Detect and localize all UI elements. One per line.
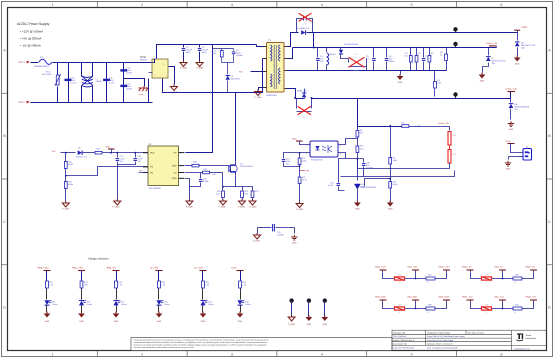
resistor R23 sense — [243, 187, 253, 191]
svg-text:Bridge: Bridge — [140, 56, 147, 59]
svg-text:2: 2 — [141, 3, 143, 7]
inductor L1 common-mode choke — [81, 63, 83, 77]
LED D13 — [200, 301, 205, 306]
power ground P_GND — [171, 87, 178, 91]
svg-text:ACL1: ACL1 — [19, 61, 26, 64]
resistor divider R16 — [64, 182, 67, 189]
capacitor C9 — [373, 48, 375, 58]
svg-text:P_GND: P_GND — [180, 67, 187, 70]
svg-text:1.0k: 1.0k — [242, 284, 246, 287]
svg-text:P_GND: P_GND — [62, 208, 69, 211]
resistor R10 — [357, 146, 359, 147]
wire T1 sec pin8 — [285, 70, 288, 72]
power port Reg_-12V — [499, 299, 506, 301]
svg-text:4: 4 — [321, 3, 323, 7]
capacitor C24 — [200, 173, 202, 179]
svg-text:100k: 100k — [302, 160, 306, 163]
logo Texas Instruments — [516, 333, 523, 341]
wire opto pin3 — [339, 153, 346, 159]
resistor R37 DNP 0-ohm — [395, 307, 405, 310]
LED D10 — [79, 301, 84, 306]
capacitor C22 Y-cap — [258, 227, 272, 229]
wire — [471, 271, 534, 279]
svg-text:0.1uF: 0.1uF — [328, 184, 334, 187]
capacitor C6 — [386, 48, 388, 58]
svg-text:5: 5 — [411, 3, 413, 7]
svg-text:R36: R36 — [515, 274, 518, 277]
power ground P_GND — [254, 235, 261, 239]
wire opto pin2 — [284, 153, 311, 159]
svg-text:GND: GND — [515, 63, 520, 66]
power port Reg3_-5V — [530, 269, 537, 271]
svg-text:1.0k: 1.0k — [118, 284, 122, 287]
junction test point TP3 — [453, 92, 457, 96]
svg-text:Linear_-5V: Linear_-5V — [438, 122, 449, 125]
wire — [81, 289, 83, 300]
wire — [81, 271, 83, 281]
svg-text:Reg2_-12V: Reg2_-12V — [462, 296, 473, 299]
wire reference node — [365, 179, 391, 187]
svg-text:0: 0 — [399, 281, 400, 284]
diode D9 DNP — [348, 59, 350, 63]
power port Reg_GND — [412, 299, 419, 301]
diode D10 DNP — [296, 99, 298, 109]
wire — [240, 306, 242, 313]
capacitor C4 snubber — [233, 49, 235, 51]
power port Lin_-12V — [200, 270, 207, 272]
svg-text:GND: GND — [307, 323, 312, 326]
wire — [158, 306, 160, 313]
svg-text:1000pF: 1000pF — [236, 54, 244, 57]
svg-text:Voltage Indicators: Voltage Indicators — [88, 258, 109, 261]
capacitor C19 — [282, 160, 286, 162]
svg-text:Reg3_-12V: Reg3_-12V — [526, 296, 537, 299]
wire — [116, 306, 118, 313]
bridge rectifier D1 MDB8S — [152, 59, 168, 78]
mosfet Q1 — [229, 162, 237, 175]
svg-text:Reg3_GND: Reg3_GND — [439, 296, 450, 299]
wire bulk rail — [157, 45, 257, 59]
test point TP4 — [289, 298, 293, 302]
resistor R4 — [446, 48, 448, 55]
power port Reg3_+12V — [443, 269, 450, 271]
svg-text:P_GND: P_GND — [186, 206, 193, 209]
power ground P_GND — [114, 201, 121, 205]
resistor R18 gate — [192, 164, 199, 167]
resistor R14 — [95, 151, 102, 154]
svg-text:Linear_-12V: Linear_-12V — [505, 88, 517, 91]
svg-text:GND: GND — [509, 128, 514, 131]
svg-text:P_GND: P_GND — [238, 206, 245, 209]
power port Linear_+5V — [496, 47, 498, 48]
power port Linear_-12V — [508, 91, 516, 93]
power port Reg2_-5V — [467, 269, 474, 271]
wire — [116, 271, 118, 281]
resistor R3 — [429, 48, 431, 56]
power port Reg2_+12V — [380, 269, 387, 271]
resistor R8 top — [357, 129, 359, 131]
power port Reg_+12V — [412, 269, 419, 271]
svg-text:0: 0 — [486, 311, 487, 314]
wire Linear -12V rail — [312, 92, 511, 99]
svg-text:440uH: 440uH — [330, 53, 336, 56]
power port +12V — [517, 31, 519, 33]
resistor R13 load DNP highlighted — [448, 150, 451, 164]
svg-text:GND: GND — [398, 81, 403, 84]
svg-text:2k: 2k — [440, 54, 442, 57]
svg-text:Green: Green — [245, 303, 251, 306]
capacitor C11 — [106, 63, 108, 103]
wire HV riser — [187, 45, 213, 153]
power ground P_GND — [62, 203, 69, 207]
svg-text:Orderable: TBD: Orderable: TBD — [393, 331, 406, 334]
power port Reg3_GND — [443, 299, 450, 301]
wire — [158, 289, 160, 300]
svg-text:0.47uF: 0.47uF — [186, 49, 193, 52]
svg-text:VDD: VDD — [150, 152, 155, 155]
inductor L1 440uH — [326, 48, 328, 53]
power port Lin_+5V — [156, 270, 163, 272]
svg-text:5: 5 — [411, 352, 413, 356]
wire — [471, 301, 534, 309]
svg-text:GND: GND — [238, 320, 243, 323]
svg-text:2: 2 — [306, 153, 307, 156]
svg-text:49.9k: 49.9k — [68, 183, 73, 186]
power port +12V — [237, 270, 244, 272]
svg-text:1.0k: 1.0k — [84, 284, 88, 287]
svg-text:Approved: Sheet: 1 of 1 Size: Approved: Sheet: 1 of 1 Size: B — [427, 343, 453, 346]
junction — [313, 47, 315, 49]
capacitor C7 — [423, 48, 425, 58]
svg-text:Project Title: AC-DC Multi Out: Project Title: AC-DC Multi Output Power … — [427, 335, 465, 338]
svg-text:Green: Green — [52, 303, 58, 306]
wire — [294, 228, 296, 234]
wire bridge plus down — [163, 79, 263, 93]
svg-text:+12V: +12V — [231, 266, 237, 269]
svg-text:1.0k: 1.0k — [161, 284, 165, 287]
wire drain riser — [235, 93, 237, 162]
svg-text:0: 0 — [515, 281, 516, 284]
zener diode D6 MMSZ4712T1G — [517, 33, 519, 41]
wire C16 bottom run — [341, 171, 455, 177]
svg-text:R39: R39 — [485, 304, 488, 307]
resistor R5 — [434, 71, 436, 82]
LED D11 — [113, 301, 118, 306]
test point TP5 — [307, 298, 311, 302]
resistor R17 100k — [299, 153, 301, 159]
ground GND — [479, 75, 486, 79]
ground GND — [306, 317, 313, 321]
resistor R39 DNP 0-ohm — [482, 307, 492, 310]
resistor R2 — [416, 48, 418, 56]
LED D12 — [156, 300, 161, 305]
wire TL431 cathode node — [346, 158, 364, 160]
svg-text:Designed for: Public Release: Designed for: Public Release — [427, 331, 450, 334]
wire T1 pin3 Rsv — [251, 71, 263, 73]
diode D6b BAS21L — [78, 150, 82, 155]
power port Reg_-5V — [113, 270, 120, 272]
wire CS path — [185, 172, 203, 174]
zener diode D7 MMSZ4712T1G — [488, 48, 490, 56]
wire — [240, 289, 242, 300]
diode D5 SMB8-13-F — [301, 30, 305, 35]
power port VDD — [296, 140, 303, 142]
svg-text:Green: Green — [87, 303, 93, 306]
svg-text:GND: GND — [172, 177, 177, 180]
svg-text:1: 1 — [51, 352, 53, 356]
power ground P_GND — [196, 63, 203, 67]
svg-text:Texas: Texas — [526, 334, 533, 337]
svg-text:VDD: VDD — [292, 138, 297, 141]
wire — [158, 271, 160, 281]
power ground P_GND — [249, 201, 256, 205]
svg-text:• +12V @ 500mA: • +12V @ 500mA — [20, 30, 43, 34]
svg-text:P_GND: P_GND — [196, 67, 203, 70]
svg-text:GND: GND — [157, 320, 162, 323]
svg-text:P_GND: P_GND — [113, 206, 120, 209]
svg-text:0: 0 — [428, 311, 429, 314]
svg-text:1: 1 — [306, 145, 307, 148]
svg-text:1.0k: 1.0k — [49, 284, 53, 287]
svg-text:630V: 630V — [186, 51, 191, 54]
optocoupler U4 FOD817DS — [310, 141, 338, 157]
wire — [83, 152, 95, 154]
svg-text:R33: R33 — [398, 274, 401, 277]
chassis ground Earth — [124, 79, 145, 87]
resistor R33 DNP 0-ohm — [395, 277, 405, 280]
svg-text:0466005.NRHF: 0466005.NRHF — [34, 65, 50, 68]
varistor RV1 — [57, 63, 59, 75]
svg-text:MDB8S: MDB8S — [140, 59, 148, 62]
power ground P_GND — [239, 201, 246, 205]
svg-text:Assy Variant: 001: Assy Variant: 001 — [393, 343, 407, 346]
shunt regulator U3 TL431AIDBZR — [354, 185, 360, 190]
capacitor C13 — [120, 85, 127, 87]
wire feedback top rail — [358, 99, 407, 127]
svg-text:3.0k: 3.0k — [437, 82, 441, 85]
resistor R21 sense — [236, 187, 243, 191]
svg-text:Lin_-12V: Lin_-12V — [194, 266, 204, 269]
junction test point TP2 — [453, 42, 457, 46]
svg-text:3: 3 — [340, 153, 341, 156]
svg-text:Lin_+5V: Lin_+5V — [150, 266, 159, 269]
connector J2 — [523, 149, 532, 161]
ground GND — [354, 203, 361, 207]
ground GND mid rail — [400, 71, 402, 75]
power port Reg_-12V — [78, 270, 85, 272]
resistor R32 — [239, 281, 242, 288]
ground GND earth — [505, 161, 511, 166]
svg-text:TID #: PMP4435: TID #: PMP4435 — [393, 335, 406, 338]
diode D8 BAV21WS — [227, 63, 229, 75]
svg-text:• +5V @ 200mA: • +5V @ 200mA — [20, 37, 42, 41]
capacitor C10 — [68, 63, 70, 103]
wire J2 pin2 — [509, 156, 523, 158]
wire — [202, 306, 204, 313]
svg-text:P_GND: P_GND — [253, 240, 260, 243]
svg-text:47nF: 47nF — [286, 160, 291, 163]
svg-text:GND: GND — [45, 320, 50, 323]
svg-text:744821: 744821 — [96, 80, 104, 83]
wire secondary mid rail — [293, 70, 447, 72]
svg-text:P_GND: P_GND — [296, 208, 303, 211]
disclaimer note box — [131, 338, 392, 351]
svg-text:0: 0 — [515, 311, 516, 314]
svg-text:R40: R40 — [515, 304, 518, 307]
resistor R7 snubber — [221, 49, 223, 51]
svg-text:680uF: 680uF — [389, 60, 395, 63]
svg-text:P_GND: P_GND — [219, 206, 226, 209]
svg-text:GND: GND — [114, 320, 119, 323]
wire — [46, 306, 48, 313]
svg-text:2: 2 — [141, 352, 143, 356]
svg-text:1.0k: 1.0k — [205, 284, 209, 287]
power port Reg_-5V — [499, 269, 506, 271]
wire — [31, 102, 153, 104]
capacitor C2 — [199, 45, 201, 48]
resistor R36 0-ohm — [513, 277, 522, 280]
wire Linear +5V rail — [293, 47, 497, 49]
svg-text:Reg_-5V: Reg_-5V — [107, 266, 117, 269]
svg-text:Drawn By: PMP DESIGNS: Drawn By: PMP DESIGNS — [393, 347, 415, 350]
resistor R30 — [158, 281, 161, 288]
ground GND earth — [508, 121, 514, 126]
svg-text:D2 MMSD4148: D2 MMSD4148 — [344, 43, 359, 46]
transformer T1 750811602 — [267, 43, 285, 93]
wire — [81, 306, 83, 313]
ground GND — [44, 314, 51, 318]
resistor R40 0-ohm — [513, 307, 522, 310]
svg-text:Mod. Date: 5/2/2016: Mod. Date: 5/2/2016 — [468, 331, 484, 334]
svg-text:SMB8-13-F: SMB8-13-F — [297, 90, 308, 93]
LED D14 — [237, 300, 242, 305]
LED D9 — [44, 300, 49, 305]
svg-text:GND: GND — [323, 323, 328, 326]
svg-text:R35: R35 — [485, 274, 488, 277]
junction — [299, 152, 301, 154]
svg-text:IPA50R2K0CE: IPA50R2K0CE — [240, 165, 254, 168]
svg-text:0: 0 — [428, 281, 429, 284]
svg-text:1: 1 — [520, 151, 521, 154]
svg-text:R38: R38 — [428, 304, 431, 307]
wire DRV to gate — [185, 165, 193, 167]
resistor R35 DNP 0-ohm — [482, 277, 492, 280]
svg-text:Green: Green — [164, 303, 170, 306]
svg-text:BAV21WS: BAV21WS — [231, 78, 241, 81]
svg-text:Reg_GND: Reg_GND — [408, 296, 418, 299]
wire — [148, 79, 150, 103]
resistor R28 — [80, 281, 83, 288]
svg-text:2.2uF: 2.2uF — [138, 158, 144, 161]
wire — [46, 271, 48, 281]
power port Reg2_-12V — [467, 299, 474, 301]
svg-text:AC/DC Power Supply: AC/DC Power Supply — [17, 22, 50, 26]
ground GND — [78, 314, 85, 318]
svg-text:Reg_-5V: Reg_-5V — [495, 266, 504, 269]
controller U1 UCC28630D — [148, 146, 179, 186]
ground GND — [200, 314, 207, 318]
resistor R1 — [410, 48, 412, 56]
wire — [202, 289, 204, 300]
svg-text:FOD817DS: FOD817DS — [311, 159, 323, 162]
svg-text:Green: Green — [121, 303, 127, 306]
svg-text:1 Specifications Dot: 1 Specifications Dot — [514, 347, 530, 350]
ground GND — [321, 317, 328, 321]
resistor divider R15 — [65, 153, 67, 162]
wire J2 pin1 — [511, 144, 523, 153]
svg-text:• -5V @ 500mA: • -5V @ 500mA — [20, 44, 41, 48]
svg-text:1.2kV: 1.2kV — [126, 85, 132, 88]
wire — [116, 289, 118, 300]
diode D3 SMB8-13-F — [296, 98, 305, 100]
svg-text:MMSZ4712T1G: MMSZ4712T1G — [521, 44, 536, 47]
svg-text:90.9k: 90.9k — [393, 183, 398, 186]
svg-text:4: 4 — [340, 145, 341, 148]
svg-text:+12V: +12V — [505, 140, 511, 143]
ground GND — [387, 203, 394, 207]
ground GND — [113, 314, 120, 318]
svg-text:640V: 640V — [236, 52, 241, 55]
wire VS sense — [66, 167, 148, 176]
title block — [392, 330, 547, 350]
svg-text:Green: Green — [208, 303, 214, 306]
svg-text:UCC28630D: UCC28630D — [149, 187, 162, 190]
wire T1 sec pin9 down — [285, 88, 288, 90]
svg-text:R34: R34 — [428, 274, 431, 277]
svg-text:VDD: VDD — [106, 146, 111, 149]
svg-text:6: 6 — [500, 3, 502, 7]
wire — [46, 289, 48, 300]
power ground P_GND — [220, 201, 227, 205]
power ground P_GND — [296, 204, 303, 208]
wire +12V rail — [307, 32, 518, 34]
svg-text:R37: R37 — [398, 304, 401, 307]
wire load bottom return — [358, 163, 450, 169]
power port Reg2_GND — [380, 299, 387, 301]
svg-text:470pF: 470pF — [126, 88, 132, 91]
svg-text:0.47uF: 0.47uF — [202, 49, 209, 52]
svg-text:GND: GND — [506, 168, 511, 171]
capacitor C3 — [183, 45, 185, 48]
svg-text:Sheet Title: AC-DC Power Stage: Sheet Title: AC-DC Power Stage — [427, 339, 453, 342]
resistor R22 51k — [298, 177, 301, 184]
power port VDD — [108, 148, 115, 150]
wire — [202, 271, 204, 281]
power ground P_GND — [288, 317, 295, 321]
svg-text:1.2kV: 1.2kV — [126, 69, 132, 72]
svg-text:HV: HV — [173, 152, 177, 155]
diode D2 MMSD4148 — [337, 47, 341, 49]
svg-text:1: 1 — [51, 3, 53, 7]
svg-text:Linear_+5V: Linear_+5V — [486, 42, 498, 45]
resistor R12 load DNP highlighted — [448, 132, 451, 146]
svg-text:Reg3_+12V: Reg3_+12V — [439, 266, 451, 269]
svg-text:1.0k: 1.0k — [216, 193, 220, 196]
capacitor C21 — [339, 159, 346, 183]
svg-text:54.9k: 54.9k — [68, 163, 73, 166]
svg-text:MMSZ4712T1G: MMSZ4712T1G — [492, 60, 507, 63]
svg-text:CS: CS — [173, 171, 177, 174]
ground GND — [514, 58, 521, 62]
svg-text:GND: GND — [480, 80, 485, 83]
svg-text:140k: 140k — [393, 159, 397, 162]
svg-text:56k: 56k — [360, 132, 363, 135]
wire T1 sec pin7 — [285, 58, 288, 60]
wire — [153, 59, 155, 63]
svg-text:BAS21L-7-0: BAS21L-7-0 — [76, 156, 88, 159]
power port Linear_-5V — [410, 126, 441, 128]
wire opto pin4 to divider — [339, 139, 358, 145]
